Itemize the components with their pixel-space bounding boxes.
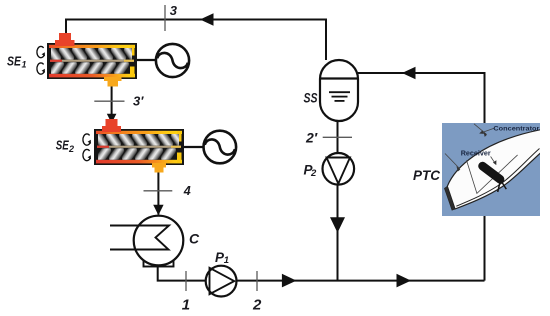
svg-text:3′: 3′ bbox=[133, 94, 144, 109]
svg-text:2: 2 bbox=[68, 144, 74, 154]
svg-text:C: C bbox=[189, 230, 200, 246]
svg-text:Receiver: Receiver bbox=[461, 149, 491, 158]
svg-text:PTC: PTC bbox=[413, 167, 441, 183]
svg-text:SE: SE bbox=[56, 139, 70, 153]
svg-text:1: 1 bbox=[22, 59, 27, 69]
svg-text:Concentrator: Concentrator bbox=[493, 126, 539, 133]
svg-text:1: 1 bbox=[182, 296, 190, 313]
svg-text:SS: SS bbox=[304, 90, 318, 105]
svg-text:2′: 2′ bbox=[305, 130, 318, 146]
svg-text:2: 2 bbox=[310, 168, 317, 179]
svg-text:SE: SE bbox=[7, 54, 22, 68]
svg-text:1: 1 bbox=[224, 255, 229, 266]
svg-text:3: 3 bbox=[170, 3, 178, 18]
svg-text:2: 2 bbox=[252, 297, 262, 314]
svg-text:4: 4 bbox=[183, 184, 191, 198]
